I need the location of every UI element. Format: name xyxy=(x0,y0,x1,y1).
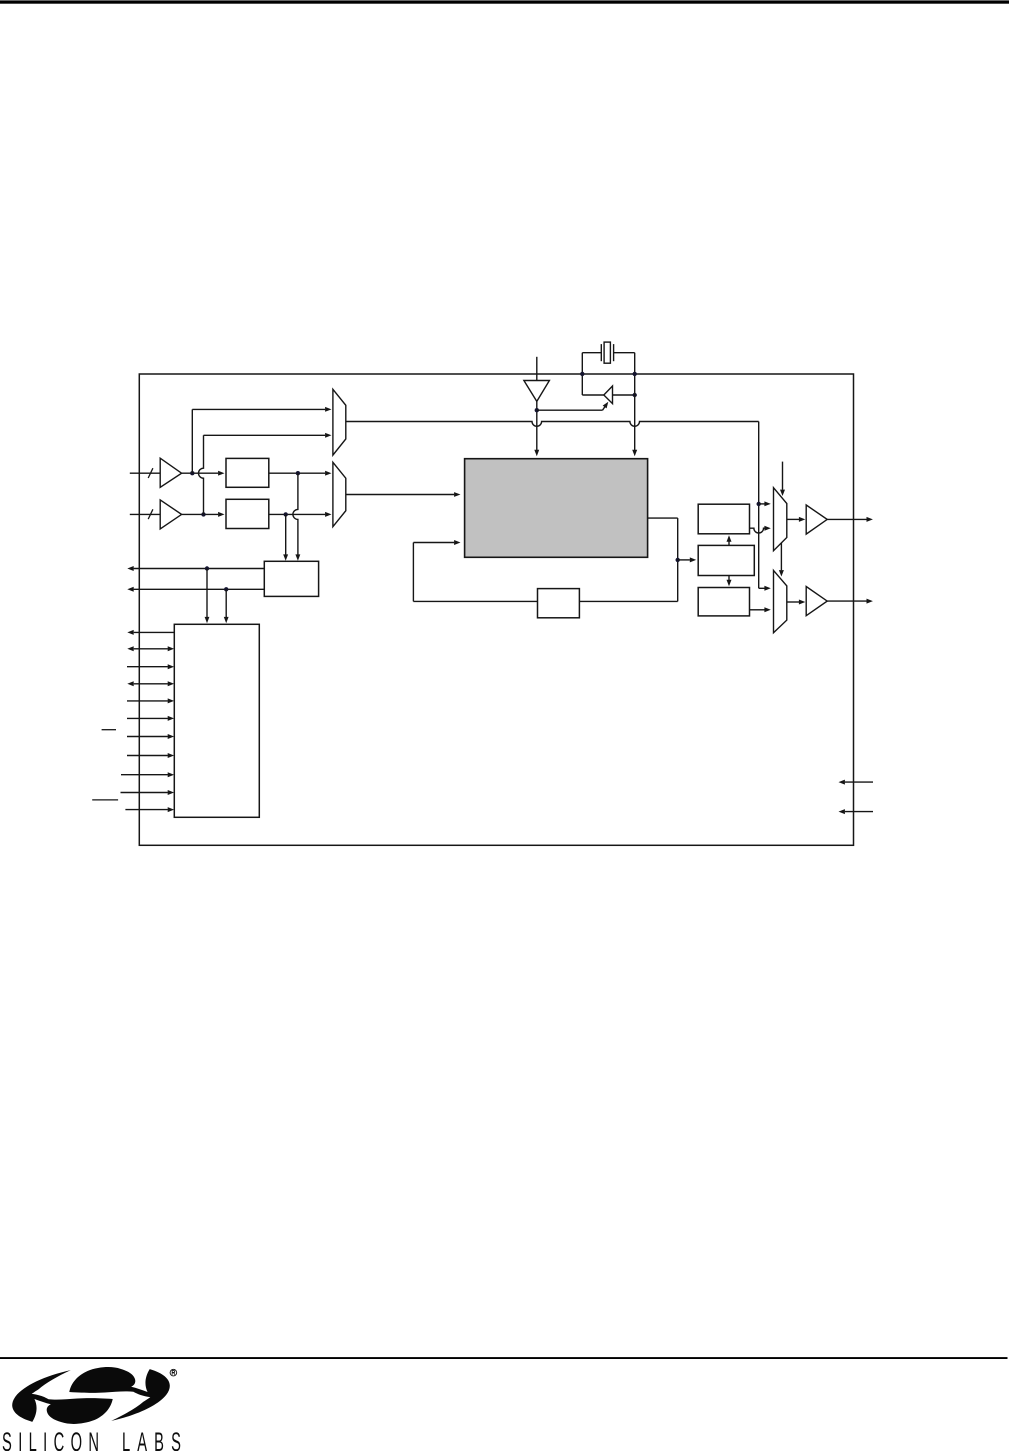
wire R2 output xyxy=(750,607,771,612)
output driver B3 xyxy=(806,505,827,534)
wire N6 to divider R0 xyxy=(678,557,697,562)
mux M1 xyxy=(333,389,346,455)
mux M3 xyxy=(774,488,787,551)
wire N4 down to status box xyxy=(283,514,288,560)
wire CLKIN2 input xyxy=(130,513,160,515)
wire control pin row 10 xyxy=(121,790,175,795)
crystal Y1 xyxy=(582,342,634,363)
wire control pin row 3 xyxy=(127,664,174,669)
node N7 xyxy=(205,566,209,570)
wire osc enable xyxy=(537,400,610,410)
node N2 xyxy=(296,471,300,475)
feedback divider FB1 xyxy=(538,589,580,618)
node N8 xyxy=(224,587,228,591)
wire M4 output xyxy=(787,600,806,605)
osc amplifier U2 xyxy=(604,386,613,404)
wire N3 up to mux M1 xyxy=(199,433,332,515)
wire CLKOUT2 xyxy=(827,599,873,604)
wire feedback lower xyxy=(579,600,677,602)
wire N1 up to mux M1 xyxy=(192,407,331,473)
wire feedback return xyxy=(413,540,537,601)
wire XB vertical xyxy=(632,353,637,457)
page footer rule xyxy=(0,1357,1008,1359)
node N1 xyxy=(190,471,194,475)
PLL block U1 xyxy=(465,459,648,558)
wire M3 to M4 xyxy=(779,543,784,577)
wire D1 output xyxy=(269,471,332,476)
wire control pin row 8 xyxy=(127,753,174,758)
wire amp output xyxy=(613,394,635,396)
wire PLL output xyxy=(648,518,678,601)
wire N7 to control box xyxy=(205,569,210,624)
wire CLKOUT1 xyxy=(827,517,873,522)
wire N8 to control box xyxy=(224,589,229,623)
node XA pin xyxy=(580,372,584,376)
wire M3 select stub xyxy=(780,462,785,496)
node XB pin xyxy=(633,372,637,376)
wire M3 output xyxy=(787,517,806,522)
wire control pin row 11 xyxy=(125,807,174,812)
wire to mux M4 xyxy=(759,586,771,591)
wire VDD input 2 xyxy=(839,809,874,814)
wire M1 output to PLL input node xyxy=(346,422,759,589)
wire control pin row 2 xyxy=(127,646,174,651)
wire R1 output xyxy=(750,526,771,533)
overbar pin label 2 xyxy=(92,799,118,801)
control box U5 xyxy=(174,624,259,817)
wire M2 output xyxy=(346,492,461,497)
wire status out B xyxy=(127,587,264,592)
page header bar xyxy=(0,0,1009,3)
registered trademark symbol xyxy=(170,1369,177,1376)
wire XA loop left xyxy=(582,353,604,395)
bus slash CLKIN1 xyxy=(148,468,153,478)
divider box R0 xyxy=(698,545,754,575)
wire control pin row 9 xyxy=(121,772,174,777)
overbar pin label 1 xyxy=(102,729,116,731)
logo wordmark SILICON LABS xyxy=(2,1428,188,1456)
output driver B4 xyxy=(806,587,827,616)
inverter stub wire xyxy=(536,357,538,381)
mux M2 xyxy=(333,462,346,526)
wire status out A xyxy=(127,566,264,571)
node N4 xyxy=(284,512,288,516)
node N3 xyxy=(201,512,205,516)
divider box D2 xyxy=(226,499,269,528)
wire control pin row 7 xyxy=(127,734,174,739)
node N5 xyxy=(757,502,761,506)
svg-text:LABS: LABS xyxy=(122,1428,188,1451)
wire N2 down to status box xyxy=(293,473,300,561)
input buffer B1 xyxy=(160,458,181,487)
wire inverter output xyxy=(534,401,539,456)
inverter U3 xyxy=(524,381,550,402)
status box U4 xyxy=(264,561,318,596)
svg-text:SILICON: SILICON xyxy=(2,1428,105,1451)
wire R0 to R1 xyxy=(727,535,732,545)
wire control pin row 4 xyxy=(127,681,174,686)
Silicon Labs logo swirl xyxy=(8,1357,173,1434)
wire B1 to divider xyxy=(182,471,225,476)
wire R0 to R2 xyxy=(727,576,732,587)
node N6 xyxy=(676,558,680,562)
chip boundary box xyxy=(139,374,853,845)
wire control pin row 1 xyxy=(127,630,174,635)
wire CLKIN1 input xyxy=(130,472,160,474)
mux M4 xyxy=(774,570,787,632)
wire N5 to mux M3 xyxy=(759,501,771,506)
divider box D1 xyxy=(226,458,269,487)
bus slash CLKIN2 xyxy=(148,509,153,519)
wire B2 to divider xyxy=(182,512,225,517)
divider box R1 xyxy=(698,504,749,534)
node XB junction xyxy=(633,393,637,397)
wire control pin row 5 xyxy=(127,698,174,703)
input buffer B2 xyxy=(160,500,181,529)
node inverter tap xyxy=(535,408,539,412)
divider box R2 xyxy=(698,588,749,616)
wire D2 output xyxy=(269,512,332,517)
wire VDD input 1 xyxy=(839,780,874,785)
wire control pin row 6 xyxy=(127,716,174,721)
